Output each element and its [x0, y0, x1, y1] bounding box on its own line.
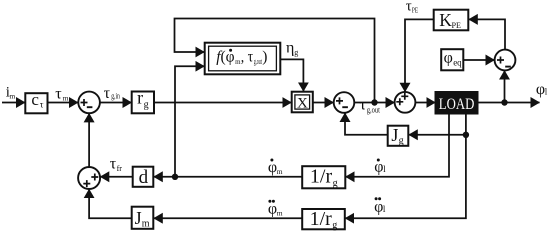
- wire K_PE output tau_PE down into sum S3: [405, 19, 434, 91]
- block K_PE: [434, 10, 469, 31]
- block r_g: [132, 92, 154, 114]
- sign plus of S4: [497, 57, 504, 64]
- wire sum S4 output up and left into K_PE: [469, 19, 505, 50]
- svg-text:r: r: [137, 88, 143, 108]
- summing junction S4: [495, 50, 516, 71]
- svg-text:m: m: [142, 219, 150, 230]
- dot of phi_dot_l: [377, 159, 380, 162]
- dot of phi in f label: [229, 49, 232, 52]
- wire LOAD to output phi_l: [478, 102, 540, 104]
- wire r_g to multiplier X: [154, 102, 291, 104]
- svg-text:eq: eq: [453, 57, 462, 67]
- sign plus south of S5: [83, 180, 90, 187]
- sign minus of S4: [505, 66, 511, 68]
- svg-text:m: m: [9, 92, 15, 101]
- block c_tau: [25, 93, 47, 113]
- svg-text:, τ: , τ: [241, 49, 254, 66]
- svg-text:K: K: [439, 10, 452, 30]
- dot of phi_dot_m: [270, 159, 273, 162]
- svg-text:τ: τ: [360, 97, 367, 114]
- block J_m: [132, 207, 154, 229]
- block X outer border: [292, 92, 313, 113]
- wire c_tau to sum S1: [48, 102, 79, 104]
- svg-text:J: J: [391, 125, 398, 145]
- svg-text:1/r: 1/r: [310, 166, 333, 188]
- wire input i_m: [2, 102, 25, 104]
- block 1/r_g upper: [302, 166, 345, 188]
- svg-text:X: X: [297, 96, 308, 112]
- wire J_g output left and up into sum S2: [345, 113, 388, 135]
- sign minus of S2: [342, 106, 348, 108]
- sign plus of S1: [81, 99, 88, 106]
- svg-text:c: c: [31, 90, 39, 109]
- node tau_g,out junction dot: [371, 99, 377, 105]
- wire sum S3 to LOAD: [415, 102, 435, 104]
- block J_g: [388, 126, 409, 146]
- wire phi_dot_m from node up into f lower input: [175, 66, 204, 177]
- summing junction S2: [334, 92, 355, 113]
- svg-text:g: g: [144, 100, 149, 111]
- wire 1/r_g lower output to J_m: [154, 217, 302, 219]
- wire d output tau_fr to sum S5: [100, 176, 132, 178]
- svg-text:g: g: [399, 136, 404, 147]
- block f inner border: [209, 46, 277, 71]
- wire f output eta_g down into X top: [281, 59, 304, 91]
- svg-text:φ: φ: [444, 50, 453, 67]
- svg-text:g: g: [294, 48, 298, 57]
- svg-text:g: g: [333, 178, 338, 189]
- summing junction S3: [395, 92, 416, 113]
- svg-text:): ): [262, 49, 267, 66]
- block phi_eq: [441, 49, 463, 70]
- node phi_dot_m junction dot: [172, 174, 178, 180]
- sign minus of S1: [87, 106, 93, 108]
- svg-text:φ: φ: [536, 81, 545, 98]
- svg-text:τ: τ: [104, 85, 111, 102]
- svg-text:m: m: [277, 167, 283, 176]
- dots of phi_ddot_m: [268, 200, 271, 203]
- sign plus east of S5: [91, 174, 98, 181]
- svg-text:m: m: [277, 209, 283, 218]
- svg-text:f(φ: f(φ: [216, 49, 234, 66]
- node phi_ddot_l junction dot: [463, 132, 469, 138]
- svg-text:l: l: [545, 86, 548, 96]
- svg-text:η: η: [286, 40, 294, 57]
- svg-text:l: l: [383, 204, 386, 214]
- svg-text:J: J: [135, 208, 142, 228]
- summing junction S5: [78, 167, 100, 189]
- svg-text:1/r: 1/r: [310, 208, 333, 230]
- block X inner border: [295, 95, 310, 109]
- svg-text:fr: fr: [117, 164, 123, 173]
- wire LOAD bottom down to phi_ddot_l row into 1/r_g lower: [345, 114, 466, 219]
- svg-text:g: g: [332, 220, 337, 231]
- svg-text:g,out: g,out: [254, 57, 262, 66]
- wire LOAD bottom down to phi_dot_l row into 1/r_g upper: [346, 114, 449, 177]
- sign plus left of S3: [396, 98, 403, 105]
- sign plus top of S3: [401, 93, 408, 100]
- wire sum S2 to sum S3 through node tau_g,out: [354, 102, 394, 104]
- sign plus of S2: [336, 97, 343, 104]
- block d: [133, 167, 154, 187]
- wire sum S1 to r_g: [100, 102, 131, 104]
- wire node to J_g input: [409, 134, 466, 136]
- svg-text:l: l: [383, 164, 386, 174]
- svg-text:LOAD: LOAD: [439, 96, 475, 113]
- wire X to sum S2: [313, 102, 334, 104]
- node phi_l junction dot: [501, 99, 507, 105]
- wire J_m output left and up into sum S5: [89, 189, 131, 218]
- wire node phi_l up into sum S4: [504, 71, 506, 103]
- wire sum S5 output up into sum S1 minus: [88, 113, 90, 167]
- block 1/r_g lower: [302, 209, 345, 229]
- block f(phi_dot_m, tau_g,out) outer border: [205, 43, 281, 75]
- svg-text:τ: τ: [55, 86, 62, 103]
- svg-text:g,in: g,in: [111, 92, 120, 101]
- svg-text:d: d: [139, 167, 149, 188]
- wire tau_g,out feedback riser, top line, down into f upper input: [175, 19, 375, 103]
- block LOAD: [436, 92, 478, 114]
- svg-text:PE: PE: [452, 20, 462, 30]
- svg-text:m: m: [63, 94, 69, 103]
- dots of phi_ddot_l: [375, 197, 378, 200]
- summing junction S1: [78, 92, 100, 114]
- svg-text:g,out: g,out: [367, 104, 381, 114]
- svg-text:τ: τ: [40, 100, 44, 110]
- svg-text:PE: PE: [412, 7, 418, 15]
- wire 1/r_g upper output through node to d block: [154, 176, 302, 178]
- wire phi_eq to sum S4: [464, 59, 495, 61]
